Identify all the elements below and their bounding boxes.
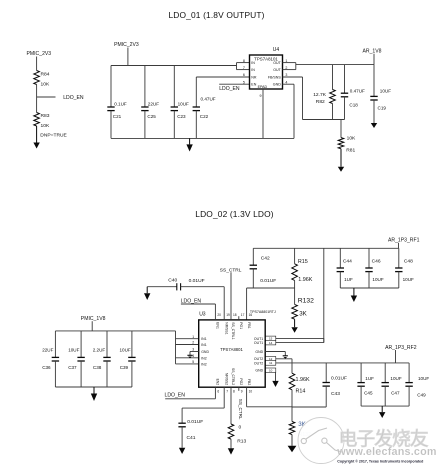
wire RF1 rail [253,247,398,249]
wire GND pin3 left [190,352,199,356]
svg-text:18: 18 [233,313,237,317]
svg-text:GND: GND [273,83,281,87]
net label AR_1V8 [363,49,382,65]
svg-text:10: 10 [249,390,253,394]
svg-text:R84: R84 [41,71,50,77]
svg-text:7: 7 [226,390,228,394]
ground (R83) [33,126,39,149]
wire PG1 stub [238,316,240,320]
svg-text:IN: IN [251,61,255,65]
svg-text:8: 8 [243,59,245,63]
watermark logo circle [298,418,344,464]
wire NR [196,76,249,78]
svg-text:14: 14 [269,341,273,345]
wire bottom rail [111,137,294,139]
wire IN stubs [176,339,199,364]
wire top rail [111,65,237,67]
wire cap bank gnd rail [55,386,131,388]
svg-text:10UF: 10UF [390,376,401,381]
svg-text:GND: GND [201,350,209,354]
resistor R15 [292,248,313,288]
svg-text:0.47UF: 0.47UF [201,96,216,101]
ground (U3 row6) [272,381,278,388]
capacitor C43 [292,363,347,407]
wire OUT1 to RF1 rail [323,248,325,342]
svg-text:2.2UF: 2.2UF [93,347,106,352]
svg-text:FB1: FB1 [247,322,251,328]
svg-text:LDO_EN: LDO_EN [181,299,202,305]
svg-text:U4: U4 [273,47,280,53]
capacitor C18 [341,65,365,120]
svg-text:LDO_02 (1.3V LDO): LDO_02 (1.3V LDO) [195,209,273,219]
svg-text:19: 19 [226,313,230,317]
capacitor C47 [382,363,402,406]
capacitor C41 [178,387,224,447]
wire FB1 route [247,288,295,320]
svg-text:10UF: 10UF [120,347,131,352]
capacitor C19 [370,65,391,123]
label DNP=TRUE [40,132,67,138]
svg-text:20: 20 [217,313,221,317]
svg-text:AR_1V8: AR_1V8 [363,49,382,55]
svg-text:C36: C36 [42,365,51,370]
svg-text:8: 8 [233,390,235,394]
svg-text:17: 17 [241,313,245,317]
wire GND pin4 route [283,84,295,138]
ground (cap bank) [186,138,192,151]
resistor R82 [313,65,335,120]
resistor R84 [34,71,50,88]
svg-text:EN1: EN1 [216,322,220,329]
ground (C19) [371,123,377,128]
node LDO_EN tap [37,95,84,101]
op-amp U3 TPS7A8801 [192,310,276,394]
svg-text:12.7K: 12.7K [313,92,327,98]
ground (C41) [179,447,185,454]
svg-text:TPS7A8801RTJ: TPS7A8801RTJ [250,310,276,314]
wire EN + label LDO_EN [219,84,249,92]
svg-text:www.elecfans.com: www.elecfans.com [336,446,436,458]
watermark url text [336,446,436,458]
svg-text:16: 16 [249,313,253,317]
wire EPAD [262,89,264,138]
svg-text:1UF: 1UF [365,376,374,381]
svg-text:SS_CTRL: SS_CTRL [238,399,243,420]
svg-text:SS_CTRL: SS_CTRL [220,267,242,273]
svg-text:C25: C25 [147,114,156,119]
svg-text:9: 9 [241,390,243,394]
wire PG2 stub [238,387,240,391]
svg-text:AR_1P3_RF2: AR_1P3_RF2 [385,345,417,351]
svg-text:OUT2: OUT2 [254,361,263,365]
wire OUT1 row1 [265,337,324,339]
svg-text:22UF: 22UF [42,347,53,352]
svg-text:1: 1 [192,335,194,339]
copyright text [337,459,423,463]
wire RF2 cap gnd rail [361,405,409,407]
svg-text:PMIC_1V8: PMIC_1V8 [81,316,106,322]
svg-text:C39: C39 [120,365,129,370]
wire AR_1V8 rail [296,64,374,66]
net label PMIC_1V8 [81,316,106,331]
svg-text:OUT: OUT [273,61,281,65]
svg-text:Copyright © 2017, Texas Instru: Copyright © 2017, Texas Instruments Inco… [337,459,423,463]
svg-text:C18: C18 [349,102,358,107]
svg-text:C41: C41 [187,435,196,441]
svg-text:R82: R82 [316,99,325,105]
svg-text:10UF: 10UF [372,277,383,282]
ground flag (U3 right) [283,356,288,359]
svg-text:10: 10 [269,369,273,373]
svg-text:C19: C19 [378,105,387,110]
svg-text:SS_CTRL2: SS_CTRL2 [231,368,235,385]
svg-text:3K: 3K [299,310,307,317]
svg-text:IN1: IN1 [201,343,207,347]
resistor R83 [34,113,50,130]
wire OUT2 row4 [265,359,292,363]
capacitor C36 [42,331,59,387]
title LDO_01 [169,10,265,20]
svg-text:4: 4 [192,354,194,358]
ground flag (U3 left) [187,355,192,358]
svg-text:EN: EN [251,83,256,87]
resistor R81 [338,120,356,154]
svg-text:FB2: FB2 [247,379,251,385]
svg-text:1UF: 1UF [344,277,353,282]
svg-text:10K: 10K [41,123,50,129]
svg-text:9: 9 [260,94,262,98]
svg-text:LDO_EN: LDO_EN [219,86,240,92]
svg-text:10UF: 10UF [178,102,189,107]
svg-text:GND: GND [255,350,263,354]
svg-text:1.96K: 1.96K [298,277,312,283]
wire EN2 + label LDO_EN [165,387,216,399]
svg-text:1.96K: 1.96K [296,377,310,383]
wire OUT pin1 [283,62,296,64]
svg-text:10UF: 10UF [380,88,391,93]
resistor R14 [289,363,310,407]
svg-text:LDO_EN: LDO_EN [63,95,84,101]
resistor R132 [292,288,314,319]
svg-text:AR_1P3_RF1: AR_1P3_RF1 [388,238,420,244]
wire FB junction line [303,119,345,121]
wire rail to IN pins [237,63,250,70]
svg-text:C40: C40 [168,278,177,284]
svg-text:C48: C48 [404,259,413,265]
svg-text:C47: C47 [391,391,400,396]
capacitor C37 [68,331,85,387]
svg-text:PG1: PG1 [239,322,243,329]
svg-text:22UF: 22UF [148,102,159,107]
svg-text:NR: NR [251,76,257,80]
capacitor C23 [171,66,189,139]
svg-text:SS_CTRL1: SS_CTRL1 [231,322,235,339]
net label AR_1P3_RF1 [388,238,420,249]
pin number boxes U3 right [266,336,276,373]
ground (RF2 caps) [379,406,385,418]
capacitor C42 [250,248,277,288]
svg-text:PMIC_2V3: PMIC_2V3 [114,42,139,48]
svg-text:6: 6 [217,390,219,394]
wire OUT pin2 jog [283,63,296,70]
capacitor C22 [193,77,216,138]
ground (3K) [288,435,297,453]
wire input rail [55,331,175,364]
svg-text:C46: C46 [372,259,381,265]
svg-text:0: 0 [239,424,242,430]
svg-text:OUT1: OUT1 [254,341,263,345]
svg-text:C23: C23 [177,114,186,119]
svg-text:6: 6 [243,73,245,77]
capacitor C25 [141,66,159,139]
svg-text:10UF: 10UF [68,347,79,352]
svg-text:PMIC_2V3: PMIC_2V3 [27,51,52,57]
resistor R133 3K [289,407,311,446]
ground (R13) [228,448,234,455]
watermark CJK text [339,427,429,450]
svg-text:LDO_EN: LDO_EN [165,392,186,398]
svg-text:IN1: IN1 [201,337,207,341]
capacitor C49 [405,363,429,406]
svg-text:0.47UF: 0.47UF [350,88,365,93]
capacitor C44 [337,248,353,288]
svg-text:R13: R13 [237,439,246,445]
svg-text:C21: C21 [113,114,122,119]
svg-text:EN2: EN2 [216,379,220,386]
svg-text:11: 11 [269,361,272,365]
svg-text:0.01UF: 0.01UF [260,278,276,284]
wire GND row3 [265,352,285,356]
svg-text:5: 5 [243,80,245,84]
svg-text:LDO_01 (1.8V OUTPUT): LDO_01 (1.8V OUTPUT) [169,10,265,20]
net label PMIC_2V3 (divider) [27,51,52,70]
svg-text:R15: R15 [298,259,308,265]
wire OUT1 row2 [265,338,324,342]
ground (PMIC_1V8 caps) [91,387,97,401]
wire FB2 route [247,387,292,407]
svg-text:OUT: OUT [273,68,281,72]
title LDO_02 [195,209,273,219]
capacitor C40 [147,278,224,320]
svg-text:C43: C43 [331,391,340,397]
wire SS_CTRL1 + label [220,267,242,320]
svg-text:C38: C38 [93,365,102,370]
svg-text:10K: 10K [41,81,50,87]
svg-text:NR/SS2: NR/SS2 [224,373,228,385]
svg-text:10UF: 10UF [418,376,429,381]
svg-text:10UF: 10UF [403,277,414,282]
capacitor C39 [120,331,136,387]
capacitor C21 [107,66,127,139]
svg-text:DNP=TRUE: DNP=TRUE [40,132,67,138]
svg-text:10K: 10K [347,136,356,142]
svg-text:5: 5 [192,360,194,364]
wire divider mid [36,85,38,113]
svg-text:R81: R81 [346,148,355,154]
svg-text:7: 7 [243,66,245,70]
svg-text:R83: R83 [41,113,50,119]
svg-text:IN: IN [251,68,255,72]
wire EN1 + label LDO_EN [181,299,216,320]
svg-text:U3: U3 [199,312,206,318]
svg-text:C49: C49 [417,393,426,398]
svg-text:EPAD: EPAD [258,85,268,89]
net label PMIC_2V3 (rail) [114,42,139,66]
svg-text:R132: R132 [298,297,314,304]
ground (RF1 caps) [351,288,357,302]
op-amp U4 TPS7A8101 [243,47,288,98]
ground (R81) [338,149,344,172]
capacitor C48 [395,248,414,288]
wire OUT2 rail row5 [265,362,409,364]
svg-text:C42: C42 [261,256,270,262]
capacitor C46 [365,248,384,288]
svg-text:TPS7A8801: TPS7A8801 [220,347,243,352]
wire RF1 cap gnd rail [340,287,399,289]
net label AR_1P3_RF2 [385,345,417,363]
svg-text:C45: C45 [364,391,373,396]
svg-text:PG2: PG2 [239,378,243,385]
capacitor C45 [357,363,374,406]
svg-text:NR/SS1: NR/SS1 [224,322,228,334]
svg-text:IN2: IN2 [201,356,207,360]
ground (C40) [144,287,150,300]
resistor R13 + SS_CTRL label [228,387,246,448]
svg-text:2: 2 [192,341,194,345]
svg-text:C22: C22 [200,114,209,119]
wire GND row6 [265,370,275,380]
svg-text:C44: C44 [343,259,352,265]
svg-text:0.1UF: 0.1UF [114,102,127,107]
svg-text:0.01UF: 0.01UF [187,419,203,425]
svg-text:0.01UF: 0.01UF [331,376,347,382]
svg-text:FB/SNS: FB/SNS [268,76,282,80]
svg-text:IN2: IN2 [201,362,207,366]
svg-text:GND: GND [255,369,263,373]
wire FB pin3 route [283,77,303,120]
capacitor C38 [93,331,111,387]
svg-text:0.01UF: 0.01UF [189,278,205,284]
svg-text:R14: R14 [296,389,306,395]
ground (R132) [291,319,297,333]
svg-text:C37: C37 [68,365,77,370]
